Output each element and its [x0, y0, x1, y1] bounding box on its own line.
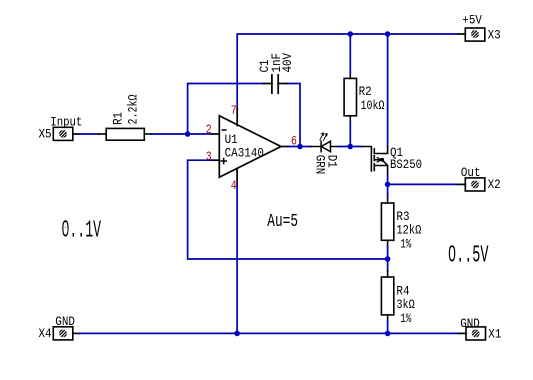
- svg-text:X2: X2: [488, 177, 501, 192]
- terminal X3: [458, 28, 485, 41]
- svg-text:Input: Input: [50, 114, 82, 129]
- junction gate node R2: [348, 144, 354, 150]
- svg-text:0..5V: 0..5V: [448, 243, 489, 270]
- wire pin3 lead black: [212, 159, 219, 161]
- junction pin2 node: [185, 131, 191, 137]
- label C1 value: [257, 53, 295, 73]
- svg-text:CA3140: CA3140: [225, 145, 264, 160]
- svg-text:GRN: GRN: [312, 155, 327, 175]
- svg-text:X3: X3: [488, 28, 501, 43]
- junction top rail R2: [348, 31, 354, 37]
- wire D1 to gate node: [339, 146, 362, 148]
- terminal X1: [459, 327, 486, 340]
- wire top rail +5V: [237, 34, 458, 109]
- op-amp U1: [219, 116, 281, 178]
- svg-text:4: 4: [231, 178, 237, 193]
- diode D1: [311, 141, 340, 152]
- resistor R2: [344, 73, 356, 122]
- op-amp plus sign: [221, 159, 226, 164]
- transistor Q1: [362, 146, 388, 172]
- svg-text:X5: X5: [39, 127, 52, 142]
- junction out node: [385, 182, 391, 188]
- terminal X5: [53, 127, 79, 140]
- LED arrows D1: [320, 133, 327, 140]
- svg-text:1%: 1%: [400, 237, 411, 252]
- junction output node: [297, 144, 303, 150]
- wire pin6 lead black: [281, 146, 288, 148]
- svg-text:+5V: +5V: [462, 13, 482, 28]
- wire C1 right to output node: [287, 84, 301, 147]
- wire R2 bottom: [349, 122, 351, 147]
- svg-text:Out: Out: [461, 165, 481, 180]
- junction Q1 bulk dot: [380, 158, 384, 162]
- svg-text:X1: X1: [488, 326, 501, 341]
- svg-text:R2: R2: [359, 84, 372, 99]
- svg-text:X4: X4: [39, 326, 52, 341]
- svg-text:3: 3: [206, 149, 212, 164]
- op-amp minus sign: [222, 129, 226, 131]
- terminal X4: [53, 327, 79, 340]
- zero patch 0..5V: [450, 252, 454, 257]
- junction divider node: [385, 256, 391, 262]
- wire out node to R3: [387, 184, 389, 197]
- svg-text:10kΩ: 10kΩ: [361, 98, 385, 113]
- wire R2 top: [349, 34, 351, 73]
- svg-text:GND: GND: [55, 314, 75, 329]
- resistor R3: [381, 197, 393, 246]
- junction top rail Q1: [385, 31, 391, 37]
- svg-text:3kΩ: 3kΩ: [396, 297, 414, 312]
- wire pin4 lead black: [236, 169, 238, 186]
- svg-text:1%: 1%: [400, 311, 411, 326]
- svg-text:12kΩ: 12kΩ: [396, 223, 421, 238]
- wire R4 to gnd: [387, 321, 389, 334]
- wire pin4 to gnd: [236, 185, 238, 333]
- wire pin6 to D1: [288, 146, 311, 148]
- wire X5 to R1: [79, 133, 99, 135]
- wire R1 to pin2: [152, 133, 213, 135]
- wire Q1 drain to out node: [387, 172, 389, 185]
- wire Q1 source to rail: [387, 34, 389, 146]
- resistor R4: [387, 259, 389, 271]
- wire pin3 to divider node: [188, 160, 388, 259]
- junction gnd pin4: [234, 331, 240, 337]
- svg-text:40V: 40V: [280, 53, 295, 73]
- wire R3 to divider node: [387, 246, 389, 259]
- svg-text:BS250: BS250: [390, 157, 422, 172]
- svg-text:GND: GND: [460, 316, 480, 331]
- wire pin7 lead black: [236, 109, 238, 126]
- svg-text:R1: R1: [111, 112, 126, 125]
- wire C1 feedback row: [188, 84, 264, 135]
- zero patch 0..1V: [64, 227, 68, 232]
- capacitor C1: [264, 75, 287, 93]
- svg-text:Au=5: Au=5: [267, 211, 298, 232]
- svg-text:2.2kΩ: 2.2kΩ: [126, 94, 141, 124]
- svg-text:7: 7: [231, 103, 237, 118]
- label R1 value: [111, 94, 141, 125]
- svg-text:2: 2: [206, 122, 212, 137]
- wire gnd rail: [79, 332, 459, 334]
- wire pin2 lead black: [212, 133, 219, 135]
- terminal X2: [458, 178, 485, 191]
- junction gnd R4: [385, 331, 391, 337]
- resistor R1: [99, 128, 152, 140]
- wire out node to X2: [388, 183, 458, 185]
